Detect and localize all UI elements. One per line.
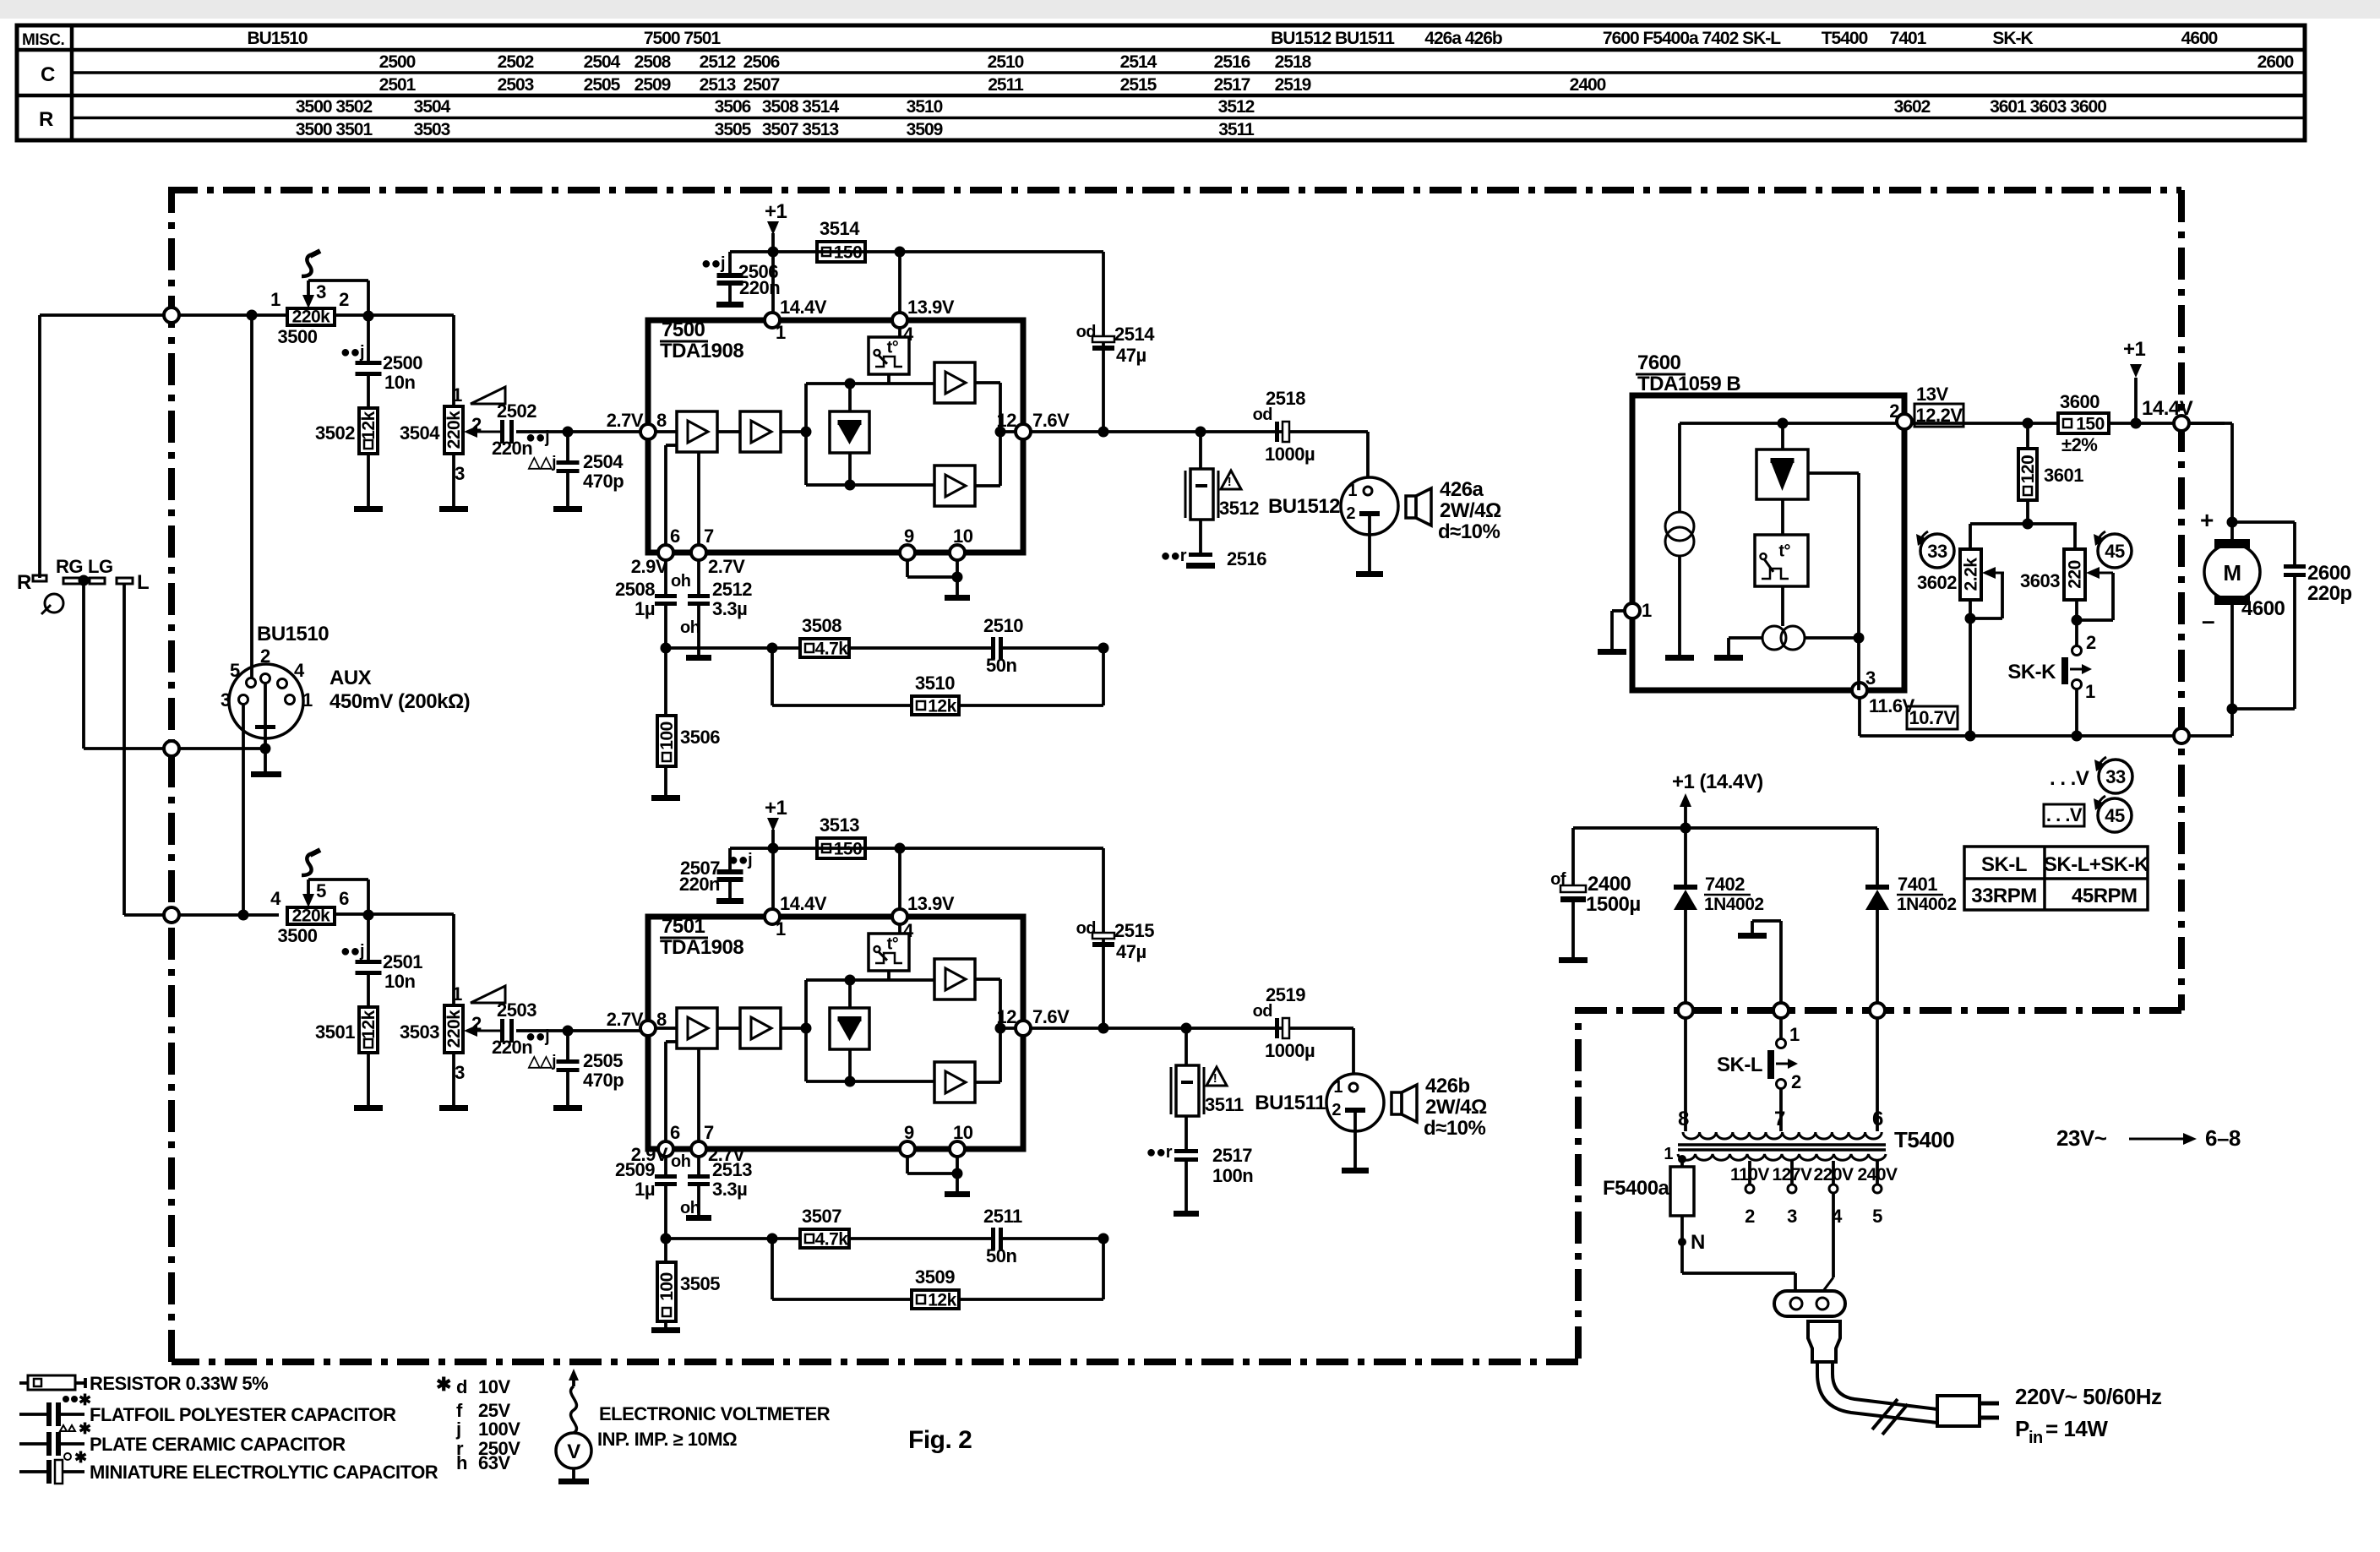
wire supply rail psu bbox=[1573, 826, 1877, 830]
loudspeaker 426b bbox=[1392, 1092, 1402, 1114]
potentiometer 3503 220k volume bbox=[444, 1005, 463, 1053]
svg-text:2510: 2510 bbox=[988, 52, 1024, 72]
svg-text:od: od bbox=[1076, 919, 1096, 938]
wire motor to rail bbox=[2230, 600, 2234, 736]
svg-text:●●j: ●●j bbox=[728, 851, 752, 869]
svg-text:1µ: 1µ bbox=[634, 1179, 655, 1200]
svg-text:3508: 3508 bbox=[802, 615, 841, 636]
svg-text:2513: 2513 bbox=[712, 1159, 752, 1180]
svg-text:2503: 2503 bbox=[498, 75, 534, 95]
svg-text:7501: 7501 bbox=[662, 915, 705, 938]
legend miniature electrolytic capacitor symbol bbox=[19, 1470, 46, 1473]
svg-text:N: N bbox=[1691, 1231, 1705, 1254]
svg-text:2.7V: 2.7V bbox=[607, 1009, 644, 1030]
svg-text:SK-L: SK-L bbox=[1981, 853, 2027, 876]
svg-text:3506: 3506 bbox=[715, 97, 751, 117]
node border crossing diode 7402 bbox=[1678, 1003, 1693, 1018]
svg-text:BU1511: BU1511 bbox=[1255, 1092, 1326, 1114]
terminal LG bbox=[90, 578, 105, 584]
node BU1510 pin3 junction bbox=[238, 910, 249, 921]
thermal cell 7600 bbox=[1781, 499, 1784, 535]
svg-text:2.2k: 2.2k bbox=[1962, 558, 1981, 591]
boxed 10.7V bbox=[1907, 706, 1958, 729]
svg-text:470p: 470p bbox=[583, 1070, 624, 1091]
svg-text:13V: 13V bbox=[1916, 384, 1948, 405]
svg-text:RG: RG bbox=[56, 556, 83, 577]
cord break slashes bbox=[1872, 1399, 1898, 1429]
circled 33 speed bbox=[1920, 534, 1954, 568]
output amplifier upper bbox=[934, 959, 975, 999]
svg-text:–: – bbox=[2202, 607, 2214, 634]
node pot output junction bbox=[363, 311, 374, 322]
wire 3600 to border bbox=[2109, 422, 2225, 425]
svg-text:470p: 470p bbox=[583, 471, 624, 492]
svg-text:150: 150 bbox=[834, 243, 863, 263]
ground under 3.3u cap bbox=[697, 1186, 700, 1215]
svg-text:TDA1908: TDA1908 bbox=[660, 936, 743, 959]
capacitor 2600 220p bbox=[2232, 520, 2295, 524]
svg-text:8: 8 bbox=[656, 410, 667, 431]
pin 2 bbox=[1897, 414, 1912, 429]
svg-text:. . .V: . . .V bbox=[2046, 804, 2083, 825]
svg-text:2: 2 bbox=[339, 289, 349, 310]
svg-text:2511: 2511 bbox=[983, 1206, 1022, 1227]
pin 6 bbox=[658, 545, 673, 560]
svg-text:2501: 2501 bbox=[379, 75, 417, 95]
node border crossing upper input bbox=[164, 308, 179, 323]
svg-text:110V: 110V bbox=[1730, 1165, 1769, 1184]
wire +1 to pin 1 bbox=[771, 848, 775, 909]
svg-text:R: R bbox=[17, 571, 31, 594]
svg-text:5: 5 bbox=[316, 880, 326, 901]
capacitor 2510 50n bbox=[849, 646, 994, 650]
svg-text:BU1510: BU1510 bbox=[247, 29, 307, 48]
svg-text:3514: 3514 bbox=[820, 218, 860, 239]
pin 9 bbox=[900, 1141, 915, 1157]
electronic voltmeter symbol bbox=[569, 1369, 579, 1380]
svg-text:1: 1 bbox=[1664, 1145, 1673, 1163]
svg-text:33: 33 bbox=[1927, 541, 1947, 562]
ground under connector bbox=[1353, 1113, 1357, 1168]
node border crossing diode 7401 bbox=[1870, 1003, 1885, 1018]
svg-text:oh: oh bbox=[680, 1199, 700, 1217]
svg-text:2.7V: 2.7V bbox=[607, 410, 644, 431]
svg-text:BU1512: BU1512 bbox=[1268, 495, 1340, 518]
node rail junction pin4 bbox=[895, 247, 906, 258]
node rail junction pin4 bbox=[895, 843, 906, 854]
wire supply rail bbox=[730, 250, 1103, 253]
amplifier stage 2 bbox=[740, 411, 781, 452]
svg-text:127V: 127V bbox=[1772, 1165, 1812, 1184]
output amplifier lower bbox=[934, 466, 975, 506]
svg-text:2: 2 bbox=[1889, 400, 1899, 422]
svg-text:13.9V: 13.9V bbox=[907, 893, 955, 914]
ground under 100 ohm bbox=[664, 766, 667, 795]
capacitor 2509 1u bbox=[664, 1157, 667, 1174]
svg-text:+: + bbox=[2200, 507, 2214, 533]
svg-text:FLATFOIL POLYESTER CAPACITOR: FLATFOIL POLYESTER CAPACITOR bbox=[90, 1404, 396, 1425]
note boxed ...V 45 bbox=[2044, 804, 2084, 826]
svg-text:12: 12 bbox=[997, 1006, 1017, 1027]
svg-text:t°: t° bbox=[1778, 542, 1790, 561]
dash-dot chassis border right bbox=[2178, 190, 2185, 1010]
svg-text:426a 426b: 426a 426b bbox=[1424, 29, 1502, 48]
svg-text:50n: 50n bbox=[986, 1245, 1016, 1266]
svg-text:2517: 2517 bbox=[1212, 1145, 1252, 1166]
svg-text:3.3µ: 3.3µ bbox=[712, 1179, 747, 1200]
wire 220V tap to mains connector bbox=[1832, 1194, 1835, 1277]
svg-text:3602: 3602 bbox=[1894, 97, 1931, 117]
wire pot output to treble pot bbox=[335, 313, 454, 317]
output amplifier upper bbox=[934, 362, 975, 403]
resistor 3501 12k bbox=[367, 975, 370, 1007]
wire oscillator to pin 3 bbox=[1805, 636, 1859, 640]
svg-text:2.7V: 2.7V bbox=[708, 556, 745, 577]
svg-text:3510: 3510 bbox=[915, 673, 955, 694]
current source cell bbox=[1678, 423, 1681, 512]
wire to loudspeaker connector bbox=[1366, 432, 1370, 478]
svg-text:2600: 2600 bbox=[2307, 562, 2351, 585]
svg-text:of: of bbox=[1550, 870, 1566, 889]
svg-text:V: V bbox=[567, 1440, 580, 1463]
pin 4 bbox=[892, 313, 907, 328]
svg-text:MINIATURE ELECTROLYTIC CAPAC: MINIATURE ELECTROLYTIC CAPACITOR bbox=[90, 1462, 438, 1483]
wire 3601 to speed pots bbox=[2026, 500, 2029, 524]
svg-text:3500: 3500 bbox=[278, 925, 318, 946]
svg-text:33: 33 bbox=[2105, 766, 2126, 787]
svg-text:L: L bbox=[137, 571, 149, 594]
svg-text:10.7V: 10.7V bbox=[1909, 707, 1957, 728]
svg-text:100: 100 bbox=[657, 722, 677, 750]
ground at pin 1 bbox=[1612, 609, 1625, 613]
svg-text:2500: 2500 bbox=[383, 352, 422, 373]
capacitor 2513 3.3u bbox=[697, 1157, 700, 1174]
svg-text:426b: 426b bbox=[1425, 1075, 1470, 1097]
svg-text:3: 3 bbox=[455, 1062, 465, 1083]
svg-text:2517: 2517 bbox=[1214, 75, 1250, 95]
record player icon bbox=[45, 594, 63, 613]
svg-text:oh: oh bbox=[671, 572, 690, 591]
ground under volume pot bbox=[452, 1053, 455, 1105]
svg-text:2400: 2400 bbox=[1588, 873, 1631, 896]
svg-text:3511: 3511 bbox=[1218, 120, 1255, 139]
node RG-LG junction bbox=[79, 575, 90, 586]
transformer tap 127V pin 3 bbox=[1790, 1161, 1794, 1184]
svg-text:3: 3 bbox=[1865, 667, 1876, 689]
svg-text:47µ: 47µ bbox=[1116, 941, 1146, 962]
svg-text:3507 3513: 3507 3513 bbox=[762, 120, 839, 139]
circled 45 speed bbox=[2098, 534, 2132, 568]
svg-text:1000µ: 1000µ bbox=[1265, 444, 1315, 465]
svg-text:AUX: AUX bbox=[329, 667, 372, 689]
svg-text:150: 150 bbox=[834, 840, 863, 859]
svg-text:!: ! bbox=[1228, 475, 1232, 489]
wire coupling cap to IC pin 8 bbox=[516, 430, 648, 433]
svg-text:12k: 12k bbox=[928, 697, 956, 716]
svg-text:7401: 7401 bbox=[1890, 29, 1927, 48]
svg-text:2: 2 bbox=[2086, 632, 2096, 653]
svg-text:oh: oh bbox=[671, 1152, 690, 1171]
node input shunt junction bbox=[563, 427, 574, 438]
svg-text:3511: 3511 bbox=[1205, 1094, 1244, 1115]
svg-text:45: 45 bbox=[2105, 805, 2125, 826]
dash-dot chassis border left bbox=[168, 190, 175, 1362]
svg-text:3503: 3503 bbox=[400, 1021, 439, 1043]
capacitor 2506 220n decoupling bbox=[728, 252, 732, 273]
svg-text:3601 3603 3600: 3601 3603 3600 bbox=[1990, 97, 2106, 117]
svg-text:3502: 3502 bbox=[315, 422, 355, 444]
transformer tap 110V pin 2 bbox=[1748, 1161, 1751, 1184]
ramp volume symbol bbox=[471, 986, 505, 1003]
svg-text:2500: 2500 bbox=[379, 52, 416, 72]
wire SK-K to bottom rail bbox=[2075, 689, 2078, 736]
wire bottom rail 10.7V bbox=[1858, 698, 1861, 736]
transformer T5400 primary winding bbox=[1678, 1154, 1886, 1160]
svg-text:50n: 50n bbox=[986, 655, 1016, 676]
svg-text:120: 120 bbox=[2018, 455, 2038, 484]
legend resistor symbol bbox=[19, 1381, 28, 1385]
svg-text:220: 220 bbox=[2066, 560, 2085, 589]
svg-text:LG: LG bbox=[88, 556, 113, 577]
mains plug bbox=[1937, 1396, 1980, 1426]
wiper 3603 bbox=[2097, 572, 2113, 575]
svg-text:+1: +1 bbox=[2123, 338, 2146, 361]
svg-text:2519: 2519 bbox=[1266, 984, 1305, 1005]
svg-text:2512: 2512 bbox=[712, 579, 752, 600]
svg-text:3503: 3503 bbox=[414, 120, 450, 139]
pin 1 bbox=[1625, 603, 1640, 618]
wire pot top loop bbox=[367, 280, 370, 315]
svg-text:2400: 2400 bbox=[1570, 75, 1606, 95]
svg-text:3500 3501: 3500 3501 bbox=[296, 120, 373, 139]
svg-text:7600 F5400a 7402 SK-L: 7600 F5400a 7402 SK-L bbox=[1603, 29, 1781, 48]
potentiometer 3602 2.2k 33rpm bbox=[1969, 524, 1972, 549]
svg-text:ELECTRONIC VOLTMETER: ELECTRONIC VOLTMETER bbox=[599, 1403, 831, 1424]
svg-text:10: 10 bbox=[953, 1122, 973, 1143]
capacitor 2514 47u supply filter bbox=[1102, 252, 1105, 432]
svg-text:±2%: ±2% bbox=[2061, 434, 2097, 455]
svg-text:3506: 3506 bbox=[680, 727, 720, 748]
svg-text:45RPM: 45RPM bbox=[2072, 885, 2138, 907]
svg-text:BU1512 BU1511: BU1512 BU1511 bbox=[1271, 29, 1395, 48]
wire pin6 cap to feedback row bbox=[664, 606, 667, 648]
svg-text:T5400: T5400 bbox=[1822, 29, 1868, 48]
svg-text:7500 7501: 7500 7501 bbox=[644, 29, 722, 48]
pin 8 bbox=[640, 424, 656, 439]
loudspeaker 426a bbox=[1406, 496, 1416, 518]
svg-text:33RPM: 33RPM bbox=[1971, 885, 2037, 907]
warning triangle bbox=[1221, 471, 1241, 489]
amplifier stage 2 bbox=[740, 1008, 781, 1048]
svg-text:△△j: △△j bbox=[527, 1053, 556, 1070]
svg-text:3: 3 bbox=[1787, 1206, 1797, 1227]
wire R input to upper channel bbox=[40, 313, 287, 317]
svg-text:7402: 7402 bbox=[1705, 874, 1745, 895]
svg-text:2509: 2509 bbox=[615, 1159, 655, 1180]
resistor 3508 4.7k feedback bbox=[666, 646, 800, 650]
capacitor 2515 47u supply filter bbox=[1102, 848, 1105, 1028]
svg-text:2W/4Ω: 2W/4Ω bbox=[1440, 499, 1501, 522]
amplifier stage 1 bbox=[677, 1008, 717, 1048]
ground under 12k bbox=[367, 454, 370, 506]
svg-text:220p: 220p bbox=[2307, 582, 2352, 605]
svg-text:3509: 3509 bbox=[915, 1266, 955, 1288]
switch SK-L bbox=[1684, 1018, 1687, 1131]
wire pin8 to amp1 bbox=[656, 1026, 677, 1030]
svg-text:2509: 2509 bbox=[634, 75, 671, 95]
svg-text:!: ! bbox=[1213, 1071, 1217, 1086]
squiggle hum symbol bbox=[302, 254, 315, 276]
ground centre tap bbox=[1779, 921, 1783, 1003]
ground under 100 ohm bbox=[664, 1321, 667, 1327]
svg-text:3: 3 bbox=[221, 689, 231, 711]
output amplifier lower bbox=[934, 1062, 975, 1103]
svg-text:150: 150 bbox=[2076, 415, 2105, 434]
svg-text:6–8: 6–8 bbox=[2205, 1125, 2241, 1151]
svg-text:3505: 3505 bbox=[680, 1273, 720, 1294]
dash-dot chassis border bottom-right segment bbox=[1578, 1010, 2181, 1362]
svg-text:2512: 2512 bbox=[700, 52, 736, 72]
svg-text:100: 100 bbox=[657, 1272, 677, 1301]
svg-text:✱: ✱ bbox=[74, 1449, 87, 1466]
svg-text:2: 2 bbox=[1332, 1101, 1341, 1119]
svg-text:M: M bbox=[2223, 560, 2241, 585]
wire feedback pin7 bbox=[697, 452, 700, 545]
transformer tap 220V pin 4 bbox=[1832, 1161, 1835, 1184]
svg-text:3501: 3501 bbox=[315, 1021, 355, 1043]
svg-text:3602: 3602 bbox=[1917, 572, 1957, 593]
svg-text:SK-L: SK-L bbox=[1717, 1054, 1762, 1076]
svg-text:3601: 3601 bbox=[2044, 465, 2083, 486]
svg-text:2511: 2511 bbox=[988, 75, 1024, 95]
svg-text:2502: 2502 bbox=[497, 400, 536, 422]
thermal protection cell bbox=[898, 328, 901, 337]
svg-text:3504: 3504 bbox=[400, 422, 440, 444]
svg-text:d: d bbox=[456, 1376, 467, 1397]
svg-text:TDA1059 B: TDA1059 B bbox=[1637, 373, 1740, 395]
svg-text:10V: 10V bbox=[478, 1376, 510, 1397]
svg-text:12k: 12k bbox=[928, 1291, 956, 1310]
svg-text:4.7k: 4.7k bbox=[815, 1230, 849, 1250]
pin 10 bbox=[950, 1141, 965, 1157]
motor M 4600 bbox=[2204, 544, 2260, 600]
svg-text:2516: 2516 bbox=[1227, 548, 1266, 569]
wire output row bbox=[1031, 430, 1368, 433]
svg-text:2505: 2505 bbox=[584, 75, 621, 95]
svg-text:14.4V: 14.4V bbox=[780, 297, 827, 318]
svg-text:od: od bbox=[1076, 323, 1096, 341]
wire 7600 internal top rail bbox=[1680, 422, 1897, 425]
svg-text:●●r: ●●r bbox=[1161, 547, 1187, 565]
svg-text:2510: 2510 bbox=[983, 615, 1023, 636]
ground left of oscillator bbox=[1729, 636, 1762, 640]
svg-text:6: 6 bbox=[670, 1122, 680, 1143]
potentiometer 3603 220 45rpm bbox=[2073, 524, 2077, 549]
svg-text:1500µ: 1500µ bbox=[1586, 893, 1641, 916]
capacitor 2516 zobel bbox=[1199, 520, 1202, 553]
svg-text:63V: 63V bbox=[478, 1452, 510, 1473]
resistor 3506 100 bbox=[664, 648, 667, 716]
ground under volume pot bbox=[452, 454, 455, 506]
svg-text:3507: 3507 bbox=[802, 1206, 841, 1227]
wire output row bbox=[1031, 1026, 1353, 1030]
svg-text:1N4002: 1N4002 bbox=[1897, 895, 1957, 914]
legend plate ceramic capacitor symbol bbox=[19, 1442, 46, 1446]
capacitor 2400 1500u bbox=[1571, 828, 1575, 885]
svg-text:2518: 2518 bbox=[1266, 388, 1305, 409]
svg-text:2519: 2519 bbox=[1275, 75, 1311, 95]
pin 1 bbox=[765, 313, 780, 328]
svg-text:3512: 3512 bbox=[1219, 498, 1259, 519]
svg-text:220V: 220V bbox=[1813, 1165, 1854, 1184]
wire rail to pin 4 bbox=[898, 252, 901, 313]
svg-text:1: 1 bbox=[776, 918, 786, 939]
warning triangle bbox=[1206, 1067, 1227, 1086]
svg-text:t°: t° bbox=[887, 338, 899, 357]
connector BU1512 bbox=[1341, 477, 1398, 535]
svg-text:●●j: ●●j bbox=[340, 942, 364, 961]
pin 6 bbox=[658, 1141, 673, 1157]
svg-text:2: 2 bbox=[260, 645, 270, 667]
svg-text:2: 2 bbox=[1346, 504, 1355, 523]
wire feedback pin6 bbox=[664, 1042, 667, 1141]
svg-text:6: 6 bbox=[670, 526, 680, 547]
wire amp2 to limiter node bbox=[781, 1026, 806, 1030]
capacitor 2500 10n bbox=[367, 315, 370, 361]
svg-text:R: R bbox=[39, 108, 53, 131]
svg-text:1: 1 bbox=[2085, 681, 2095, 702]
svg-text:d≈10%: d≈10% bbox=[1438, 520, 1500, 543]
transformer tap 240V pin 5 bbox=[1876, 1161, 1879, 1184]
svg-text:5: 5 bbox=[230, 660, 240, 681]
node border crossing lower input bbox=[164, 907, 179, 923]
wire limiter bracket bbox=[804, 980, 808, 1081]
dash-dot chassis border bottom bbox=[172, 1359, 1578, 1365]
svg-text:2504: 2504 bbox=[583, 451, 624, 472]
switch SK-K bbox=[2075, 600, 2078, 645]
pin 8 bbox=[640, 1021, 656, 1036]
fuse resistor 3511 bbox=[1185, 1028, 1188, 1065]
ground under 470p bbox=[566, 473, 569, 506]
pin 9 bbox=[900, 545, 915, 560]
thermal protection cell bbox=[898, 924, 901, 934]
pin 7 bbox=[691, 545, 706, 560]
svg-text:2: 2 bbox=[1745, 1206, 1755, 1227]
svg-text:10: 10 bbox=[953, 526, 973, 547]
svg-text:BU1510: BU1510 bbox=[257, 623, 329, 645]
wire amp1 to amp2 bbox=[717, 430, 740, 433]
fuse resistor 3512 bbox=[1199, 432, 1202, 469]
svg-text:INP. IMP. ≥ 10MΩ: INP. IMP. ≥ 10MΩ bbox=[597, 1429, 737, 1450]
oscillator transformer cell bbox=[1781, 586, 1784, 626]
amplifier stage 1 bbox=[677, 411, 717, 452]
svg-text:4: 4 bbox=[270, 888, 281, 909]
ground under 12k bbox=[367, 1053, 370, 1105]
svg-text:2504: 2504 bbox=[584, 52, 621, 72]
svg-text:3.3µ: 3.3µ bbox=[712, 598, 747, 619]
svg-text:✱: ✱ bbox=[436, 1374, 451, 1395]
svg-text:1000µ: 1000µ bbox=[1265, 1040, 1315, 1061]
svg-text:2502: 2502 bbox=[498, 52, 534, 72]
svg-text:●●r: ●●r bbox=[1146, 1143, 1173, 1162]
dash-dot chassis border top bbox=[172, 190, 2181, 196]
svg-text:RESISTOR 0.33W 5%: RESISTOR 0.33W 5% bbox=[90, 1373, 268, 1394]
resistor 3513 150 bbox=[817, 838, 865, 858]
resistor 3502 12k bbox=[367, 376, 370, 408]
wire to loudspeaker connector bbox=[1352, 1028, 1355, 1075]
svg-text:9: 9 bbox=[904, 526, 914, 547]
svg-text:2514: 2514 bbox=[1120, 52, 1157, 72]
